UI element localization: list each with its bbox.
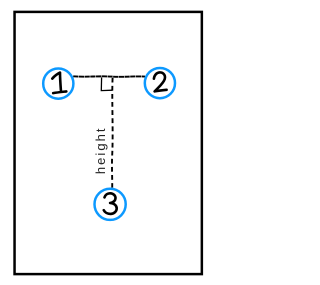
node 2: circled number 2 bbox=[145, 68, 175, 98]
node 1: circled number 1 bbox=[43, 69, 73, 99]
wire: vertical dashed height line from junction to node 3 bbox=[111, 78, 114, 188]
svg-text:height: height bbox=[93, 126, 108, 174]
wire: horizontal dashed segment between node 1 and node 2 bbox=[73, 75, 145, 78]
node 3: circled number 3 bbox=[95, 189, 126, 220]
right-angle marker at junction bbox=[101, 78, 112, 91]
